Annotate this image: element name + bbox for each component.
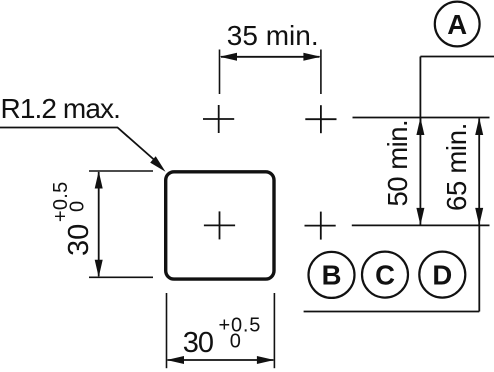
center mark plus bottom-right [305,212,336,240]
center mark plus top-right [305,105,336,133]
datum A horizontal line [420,56,494,58]
dimension 30 left extension line bottom [89,276,153,278]
leader line R1.2 max. [0,128,155,161]
panel edge bottom line [304,311,480,313]
dimension 30 left extension line top [89,170,153,172]
center mark plus top-left [203,105,234,133]
svg-text:A: A [447,9,467,40]
dimension 30 left arrowhead top [95,171,103,188]
dimension 30 left arrowhead bottom [95,260,103,277]
svg-text:35 min.: 35 min. [227,20,319,51]
leader arrowhead [150,156,165,172]
datum circle A [435,2,480,47]
panel edge vertical line right [478,225,480,311]
svg-text:50 min.: 50 min. [382,120,413,207]
dimension 30 bottom extension line left [166,293,168,368]
dimension 50 min arrowhead bottom [416,208,424,225]
dimension 35 min arrowhead left [220,53,237,61]
dimension 30 bottom extension line right [273,293,275,368]
dimension 65 min arrowhead bottom [475,208,483,225]
svg-text:R1.2 max.: R1.2 max. [1,93,121,124]
datum circle D [419,252,465,298]
dimension 30 bottom arrowhead left [167,356,184,364]
dimension 30 bottom line [168,359,274,361]
dimension 30 left line [98,172,100,276]
svg-text:B: B [322,260,342,291]
datum circle C [362,252,408,298]
dimension 35 min arrowhead right [303,53,320,61]
datum A vertical line [419,57,421,124]
dimension 35 min extension line left [219,50,221,95]
svg-text:C: C [375,259,395,290]
dimension 65 min line [478,119,480,225]
dimension 50 min arrowhead top [416,118,424,135]
svg-text:D: D [432,259,452,290]
center mark plus square center [204,211,235,239]
dimension 35 min line [221,56,320,58]
datum circle B [309,252,355,298]
dimension 65 min arrowhead top [475,118,483,135]
dimension 50 min line [419,119,421,225]
horizontal line row 2 [352,224,490,226]
horizontal line row 1 [353,117,490,119]
dimension 30 bottom arrowhead right [257,356,274,364]
dimension 35 min extension line right [320,50,322,95]
square cutout [166,172,274,279]
svg-text:65 min.: 65 min. [441,123,472,211]
